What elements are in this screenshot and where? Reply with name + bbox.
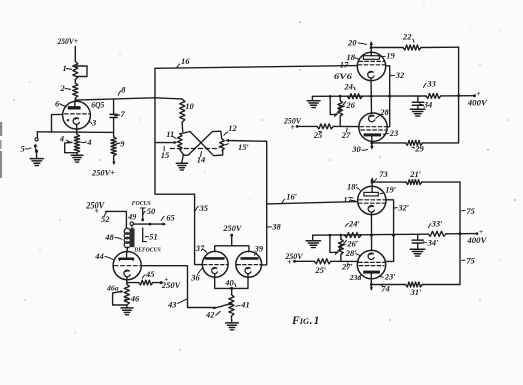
wire cathodes 17'/28' [370, 212, 373, 250]
resistor R24 [347, 94, 362, 99]
label 75 (upper) [462, 206, 476, 216]
svg-text:73: 73 [379, 169, 388, 179]
label DEFOCUS [133, 246, 161, 253]
tube 6 cathode [73, 118, 79, 125]
capacitor C34 plates [412, 102, 423, 105]
svg-text:22: 22 [402, 32, 412, 42]
tube V28 envelope [359, 113, 387, 141]
resistor R25 [317, 124, 333, 129]
label 4 (left) [59, 134, 64, 144]
capacitor C34 lead [417, 96, 419, 102]
ground (R46) [121, 308, 133, 315]
tube 17 anode box 19 [363, 56, 379, 60]
label 24' [345, 218, 360, 228]
svg-text:28: 28 [379, 107, 389, 117]
resistor R33 [426, 93, 441, 98]
svg-text:44: 44 [94, 251, 104, 261]
label 43 [167, 299, 187, 310]
svg-text:7: 7 [121, 109, 126, 119]
caption Fig.1 [291, 315, 319, 327]
svg-text:400V: 400V [467, 98, 488, 108]
element 11 (left zigzag electrode) [178, 134, 183, 150]
label 40 [224, 278, 236, 288]
ground (screen bus lower) [306, 235, 321, 247]
tube 6 cathode lead [76, 124, 78, 134]
svg-text:2: 2 [60, 83, 66, 93]
svg-text:75: 75 [466, 206, 475, 216]
relay coil 48 [124, 228, 130, 248]
tube 6 anode plate (hatched bar) [68, 106, 81, 109]
resistor R26 (variable) [338, 95, 343, 127]
tube 37 grid (dashed) [203, 264, 227, 266]
label 8 [118, 85, 126, 96]
node 250V supply (upper amp) [283, 115, 302, 132]
wire C34' to ground [417, 243, 419, 249]
wire cathodes 37/39 to node 40 [215, 274, 248, 290]
svg-text:400V: 400V [466, 235, 487, 245]
label 1 [63, 63, 72, 73]
label 23a [349, 273, 362, 282]
ground (C34) [410, 109, 425, 116]
label 34' [423, 237, 438, 247]
svg-text:5: 5 [21, 143, 26, 153]
label 2 [60, 83, 71, 93]
svg-text:32: 32 [395, 70, 405, 80]
wire R46 to ground [126, 305, 128, 308]
label 39 [254, 244, 264, 256]
wire R1 to R2 [74, 80, 76, 84]
relay contact 50 (FOCUS) [140, 208, 145, 221]
relay core (laminated) [130, 228, 134, 247]
tube 39 cathode [245, 267, 251, 273]
svg-text:46a: 46a [106, 284, 119, 293]
label 74 [381, 284, 390, 294]
label 11 [166, 129, 176, 139]
svg-text:+: + [287, 258, 292, 267]
svg-text:37: 37 [195, 243, 205, 253]
wire R4 to ground [76, 153, 78, 155]
tube 44 cathode lead [126, 277, 128, 285]
label 26' [340, 238, 358, 248]
label 14 [197, 152, 206, 165]
node 250V+ supply (top left) [57, 36, 78, 46]
screen bus wire (upper) [312, 95, 426, 97]
svg-text:74: 74 [381, 284, 390, 294]
svg-text:33′: 33′ [431, 218, 443, 228]
tube 6 plate lead [74, 100, 76, 106]
label 29 [412, 143, 425, 153]
tube 39 anode bar [242, 257, 258, 260]
svg-text:41: 41 [240, 300, 250, 310]
svg-text:38: 38 [271, 222, 281, 232]
svg-text:42: 42 [205, 310, 215, 320]
svg-text:24′: 24′ [348, 218, 360, 228]
svg-text:33: 33 [426, 78, 436, 88]
wire R33 to 400V terminal [441, 94, 476, 97]
svg-text:15: 15 [161, 150, 170, 160]
svg-text:23a: 23a [349, 273, 362, 282]
node 400V+ (lower) [466, 227, 487, 245]
label 73 [374, 169, 388, 181]
svg-text:6: 6 [55, 98, 60, 108]
svg-text:26′: 26′ [346, 238, 358, 248]
wire R31' to HT rail [422, 284, 460, 286]
tube V39 envelope [236, 251, 262, 277]
resistor R25' [314, 259, 331, 264]
ground (element 14) [176, 163, 187, 170]
resistor R4 (variable cathode resistor) [74, 134, 79, 152]
label 75 (lower) [462, 256, 476, 266]
label 19 [381, 51, 396, 61]
wire element 11 to ground [182, 155, 183, 163]
label 10 [185, 101, 194, 111]
wire 65 output (arrow) [133, 222, 166, 225]
tube 28 grids (dashed) [360, 127, 386, 130]
label 37 [195, 243, 207, 253]
label FOCUS [132, 200, 152, 207]
label 33 [423, 78, 436, 88]
ground (resistor 4) [71, 155, 83, 162]
svg-text:11: 11 [166, 129, 174, 139]
label 16' [281, 192, 297, 205]
svg-text:IG: IG [299, 317, 309, 326]
tube 17 plate lead with terminal 20 [369, 41, 373, 56]
label 38 [267, 222, 282, 232]
label 28 [376, 107, 390, 119]
node 400V+ (upper) [467, 89, 488, 108]
wire R9 top lead [113, 132, 115, 137]
label 19' [380, 185, 396, 195]
label 32 [391, 70, 405, 80]
ground (R41) [226, 323, 239, 330]
label 25 [313, 130, 323, 140]
label 51 [145, 231, 157, 241]
svg-text:46: 46 [130, 294, 140, 304]
svg-text:75: 75 [466, 256, 475, 266]
svg-text:6Q5: 6Q5 [91, 101, 104, 110]
tube 28 anode bar 23 [364, 133, 382, 136]
svg-text:+: + [94, 207, 99, 216]
label 24 [343, 81, 355, 91]
label 6 [55, 98, 67, 108]
label 6Q5 [91, 101, 104, 110]
tube 6 grid (dashed) [65, 113, 89, 115]
tube V28' envelope [357, 250, 385, 278]
label 9 [117, 138, 126, 148]
label 3 [89, 118, 97, 128]
wire cathode bus (switch 5 to R9) [37, 131, 113, 134]
label 4 (right) [80, 137, 91, 147]
tube 44 cathode [124, 270, 130, 277]
label 15 [161, 146, 170, 160]
tube V17' envelope (6V6) [358, 186, 386, 214]
svg-text:18′: 18′ [347, 181, 358, 191]
label 18 [347, 52, 360, 62]
svg-text:+: + [476, 89, 481, 98]
tube 28 cathode [369, 115, 375, 122]
svg-text:6V6: 6V6 [334, 71, 353, 81]
wire cathodes 17/28 [370, 78, 373, 114]
tube 28' cathode [368, 253, 374, 259]
label 42 arrow (wiper) [0, 0, 1, 1]
svg-text:26: 26 [345, 100, 355, 110]
wire R22 to HT rail [421, 46, 459, 48]
wire plate 28 to R29 [372, 142, 406, 144]
label 21' [409, 169, 421, 179]
svg-text:51: 51 [149, 231, 158, 241]
wire node 40 to R41 [231, 288, 233, 294]
svg-text:39: 39 [254, 244, 264, 254]
svg-text:23: 23 [389, 128, 399, 138]
label 6V6 [334, 71, 353, 81]
element 11/12 crossed band outline [180, 131, 223, 156]
svg-text:30: 30 [351, 144, 361, 154]
label 36 [190, 268, 202, 283]
label 50 [143, 206, 156, 216]
tube V44 envelope [113, 252, 141, 280]
wire plate 17 to R22 [371, 47, 403, 49]
resistor R45 [139, 280, 153, 285]
svg-text:27: 27 [341, 130, 351, 140]
label 25' (lower) [314, 265, 326, 275]
svg-text:.: . [310, 315, 313, 327]
svg-text:21′: 21′ [409, 169, 421, 179]
svg-text:24: 24 [343, 81, 353, 91]
svg-text:10: 10 [185, 101, 194, 111]
svg-text:52: 52 [101, 214, 110, 224]
node 250V supply (tubes 37/39) [222, 223, 242, 233]
label 17' [343, 194, 355, 204]
label 22 [402, 32, 414, 43]
capacitor C7 leads [113, 99, 115, 132]
svg-text:34′: 34′ [427, 237, 439, 247]
svg-text:8: 8 [121, 85, 126, 95]
relay armature pivot 49 [130, 222, 133, 228]
svg-text:250V+: 250V+ [91, 168, 115, 178]
wire screen 32 [386, 66, 392, 127]
resistor R2 [73, 83, 78, 98]
relay contact 51 (DEFOCUS) [143, 228, 147, 242]
screen bus wire (lower) [313, 234, 428, 235]
label 28' [345, 248, 361, 258]
svg-text:36: 36 [190, 273, 200, 283]
label 41 [236, 300, 250, 310]
resistor R21' [406, 180, 421, 185]
tube 37 anode bar [206, 257, 224, 260]
wire plate bus 37/39 [215, 246, 249, 252]
wire C34 to ground [417, 105, 419, 109]
label 44 [94, 251, 113, 261]
resistor R24' [344, 233, 361, 238]
wire 250V to relay armature [106, 211, 127, 228]
svg-text:31′: 31′ [410, 287, 422, 297]
wire R41 to ground [230, 316, 232, 322]
wire R29 to HT rail [422, 142, 458, 144]
label 45 [142, 269, 155, 279]
ground (screen bus upper) [307, 96, 320, 107]
tube 28 plate lead with terminal 30 [370, 136, 374, 150]
svg-text:+: + [290, 123, 295, 132]
label 27 [341, 128, 351, 140]
svg-text:45: 45 [145, 269, 155, 279]
node 250V supply (lower amp) [284, 251, 304, 267]
label 42 [205, 310, 220, 320]
tube 17' anode box 19' [364, 192, 378, 196]
node 250V+ (below R9) [91, 168, 115, 178]
label 5 [21, 143, 32, 153]
label 16 [176, 56, 190, 68]
label 46 [125, 294, 140, 304]
svg-text:40: 40 [224, 278, 234, 288]
wire 16 (feedback line, top) [155, 66, 358, 98]
HT rail (lower stage) [459, 182, 461, 284]
resistor R9 [111, 137, 116, 156]
svg-text:15′: 15′ [238, 142, 249, 152]
wire R9 to 250V+ (arrow down) [112, 156, 115, 165]
label 31' [410, 287, 422, 297]
tube 17 grids (dashed) [358, 61, 385, 64]
tube 44 grid (dashed) [114, 265, 141, 267]
svg-text:28′: 28′ [345, 248, 357, 258]
node 250V supply (relay) [85, 201, 105, 216]
svg-text:43: 43 [167, 300, 177, 310]
switch S5 arm [34, 143, 38, 152]
potentiometer R41 [229, 295, 234, 317]
svg-text:4: 4 [59, 134, 64, 144]
svg-text:34: 34 [423, 99, 433, 109]
wire cathode 44 junction to R45 [127, 282, 139, 284]
resistor R10 [180, 99, 185, 122]
capacitor C34' plates [412, 240, 423, 243]
resistor R1 (variable, with slider box) [73, 62, 87, 80]
wire element 12 to node 38 (arrow) [225, 139, 267, 142]
svg-text:32′: 32′ [397, 203, 409, 213]
wire R41 bottom [0, 0, 1, 1]
svg-text:25′: 25′ [314, 265, 326, 275]
label 48 [104, 232, 122, 242]
node 15 dashed line [170, 144, 228, 149]
svg-text:16′: 16′ [286, 192, 297, 202]
label 32' [394, 203, 409, 213]
svg-text:19: 19 [386, 51, 395, 61]
svg-text:48: 48 [104, 232, 114, 242]
svg-text:1: 1 [314, 315, 320, 327]
tube 37 cathode [212, 267, 218, 273]
tube 28' anode bar 23' [363, 271, 380, 274]
label 18' [347, 181, 360, 191]
svg-text:12: 12 [228, 123, 237, 133]
resistor R4 wiper tap wire [65, 140, 77, 153]
wire plate 28' to R31' [371, 284, 405, 286]
wire from 250V+ to resistor 1 [74, 47, 76, 62]
label 33' [428, 218, 442, 228]
tube V37 envelope [202, 251, 228, 277]
tube 28' grids (dashed) [359, 262, 385, 265]
svg-text:250V+: 250V+ [57, 36, 78, 46]
svg-text:49: 49 [127, 212, 136, 221]
svg-text:20: 20 [347, 38, 357, 48]
label 17 [340, 60, 352, 70]
resistor R33' [428, 231, 446, 236]
label 12 [224, 123, 238, 136]
wire R45 to 250V [153, 281, 163, 284]
wire 250V to plate bus [230, 234, 233, 246]
wire screen 32' [386, 200, 396, 262]
capacitor C34' lead [417, 234, 419, 240]
wire 27 (250V to grid 28) [296, 125, 359, 128]
resistor R26' (variable) [339, 234, 344, 262]
label 49 [127, 212, 136, 221]
label 34 [419, 99, 432, 109]
ground (switch 5) [30, 159, 43, 166]
svg-text:19′: 19′ [385, 185, 396, 195]
svg-text:65: 65 [166, 213, 175, 223]
tube V6 6Q5 envelope [63, 101, 91, 129]
wire R10 to element 11 [181, 122, 184, 132]
svg-text:17: 17 [340, 60, 349, 70]
wire 16' (to lower amplifier) [267, 202, 358, 204]
svg-text:250V: 250V [222, 223, 242, 233]
capacitor C7 plates [110, 114, 117, 117]
resistor R22 [403, 45, 421, 50]
label 20 [347, 38, 367, 48]
tube 6 gas dot [67, 119, 69, 121]
label 23 [383, 128, 399, 138]
svg-text:4: 4 [86, 137, 91, 147]
wire R33' to 400V terminal [446, 232, 478, 235]
svg-text:23′: 23′ [384, 272, 396, 282]
wire 38 vertical [261, 141, 267, 265]
label 26 [339, 100, 356, 110]
tube 17 cathode [368, 71, 374, 78]
resistor R31' [406, 282, 423, 287]
wire bus to element 11 (arrow) [155, 141, 178, 144]
node 250V+ (right of R45) [161, 274, 182, 290]
tube 44 anode bar [119, 252, 133, 260]
svg-text:29: 29 [414, 143, 424, 153]
tube 17' grids (dashed) [358, 200, 385, 203]
svg-text:250V: 250V [161, 281, 182, 290]
tube V17 envelope (6V6) [357, 52, 385, 80]
label 35 [195, 203, 209, 213]
label 23' [379, 272, 396, 282]
scan smudge (left edge) [0, 122, 2, 178]
HT rail (upper stage) [458, 47, 460, 143]
wire grid of tube 6 to bus [52, 114, 63, 132]
element 12 (right zigzag electrode) [220, 139, 225, 151]
svg-text:1: 1 [63, 63, 67, 73]
switch S5 upper contact [35, 132, 38, 141]
wire 43 (grid of 44 to potentiometer 41) [141, 266, 233, 309]
resistor R46 (variable) [124, 284, 129, 305]
svg-text:35: 35 [199, 203, 209, 213]
label 30 [351, 144, 368, 154]
svg-text:50: 50 [147, 206, 156, 216]
svg-text:3: 3 [91, 118, 97, 128]
label 15' [238, 142, 249, 152]
tube 17' cathode [368, 206, 374, 213]
label 52 [101, 212, 110, 224]
resistor R46 wiper tap wire [113, 290, 127, 305]
wire 35 vertical run [155, 98, 203, 265]
svg-text:17′: 17′ [343, 194, 354, 204]
label 27' [341, 262, 353, 272]
wire plate 17' to R21' [372, 181, 406, 183]
switch S5 lead to ground [36, 151, 38, 158]
wire 27' (250V to grid 28') [293, 260, 358, 263]
label 7 [115, 109, 126, 119]
resistor R29 [406, 140, 423, 145]
